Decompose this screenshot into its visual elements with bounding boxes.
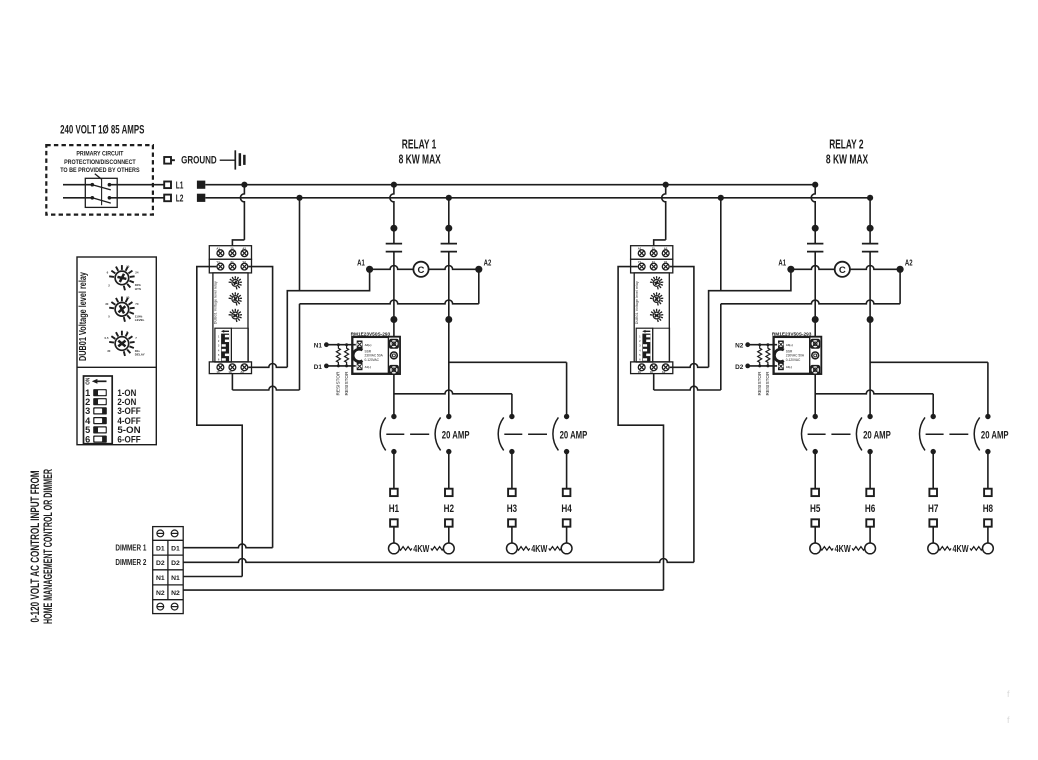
load circle H5 [810, 543, 821, 554]
faint page artifact [1007, 689, 1010, 725]
terminal H6 square (output) [866, 489, 874, 496]
DUB01-1 mid terminals Y1 Z1 Y2 [216, 260, 247, 270]
legend DIP switch row 4-OFF [85, 416, 107, 426]
svg-text:H4: H4 [561, 503, 572, 515]
legend box DUB01 [77, 257, 156, 445]
legend DIP text 2-ON [117, 397, 136, 407]
svg-text:Y1: Y1 [638, 260, 642, 264]
terminal H7 square (load) [929, 519, 937, 526]
contactor K2 contact R (from L2) [862, 198, 878, 323]
label DIMMER 1 [115, 543, 146, 552]
terminal H3 square (load) [508, 519, 516, 526]
svg-text:L2: L2 [176, 193, 184, 204]
terminal H8 square (load) [984, 519, 992, 526]
wire N1 to relay1 control [183, 576, 242, 578]
label H7 [928, 503, 938, 515]
junction L1/contact2L [812, 182, 818, 188]
svg-text:N1: N1 [314, 343, 322, 350]
svg-text:10: 10 [126, 264, 130, 268]
svg-text:D2: D2 [171, 560, 180, 567]
svg-text:D2: D2 [735, 364, 743, 371]
wire D1 to SSR [326, 365, 355, 367]
svg-text:D1: D1 [171, 545, 180, 552]
terminal H2 square (load) [445, 519, 453, 526]
wire N2 to SSR [748, 344, 777, 346]
terminal H1 square (load) [390, 519, 398, 526]
svg-text:Y1: Y1 [216, 260, 220, 264]
svg-text:A1: A1 [778, 257, 786, 267]
dimmer terminal block TB1 [153, 527, 184, 614]
junction L2/relay2 coil drop [718, 195, 724, 201]
junction L1/DUB01-1 [241, 182, 247, 188]
svg-text:H2: H2 [444, 503, 454, 515]
terminal L2 (open square and label) [164, 193, 184, 204]
wire H6 load lead [869, 527, 871, 543]
svg-text:DIMMER 1: DIMMER 1 [115, 543, 146, 552]
svg-text:A3(+): A3(+) [365, 343, 372, 347]
svg-text:20 AMP: 20 AMP [442, 430, 470, 442]
terminal cells D2 [156, 560, 180, 567]
svg-text:C: C [418, 265, 425, 276]
svg-text:D1: D1 [314, 364, 322, 371]
wire Y2 (DUB01-2) to D2 terminal [670, 267, 694, 563]
svg-text:DIMMER 2: DIMMER 2 [115, 558, 146, 567]
SSR U2 input terminals [778, 341, 793, 371]
wire D1 to relay1 control [183, 544, 272, 548]
svg-text:HOME MANAGEMENT CONTROL OR DIM: HOME MANAGEMENT CONTROL OR DIMMER [43, 469, 55, 624]
resistor R2b label [765, 371, 770, 396]
wire breaker to terminal H1 [393, 452, 395, 489]
svg-text:RELAY 2: RELAY 2 [829, 136, 863, 151]
svg-text:N2: N2 [171, 590, 180, 597]
svg-text:Z1: Z1 [652, 260, 656, 264]
contactor K1 contact R (from L2) [441, 198, 457, 323]
resistor R1b label [344, 371, 349, 396]
heater load 4KW (H5/H6) [821, 544, 865, 555]
svg-text:A1: A1 [357, 257, 365, 267]
svg-text:30: 30 [107, 349, 111, 353]
bus L2 wire [205, 197, 870, 199]
wire contact 2L to SSR and H5 [815, 320, 933, 417]
load circle H2 [443, 543, 454, 554]
svg-text:Z1: Z1 [230, 260, 234, 264]
svg-text:8 KW MAX: 8 KW MAX [826, 151, 869, 166]
terminal cells N2 [156, 590, 180, 597]
svg-text:15: 15 [230, 247, 234, 251]
wire L2 drop to contactor K2 coil circuit [720, 198, 722, 291]
label 20 AMP (CB2a) [863, 430, 891, 442]
load circle H8 [983, 543, 994, 554]
title 240 VOLT 1 PHASE 85 AMPS [60, 124, 144, 137]
node D1 [314, 364, 329, 371]
wire Y1 (DUB01-2) to N2 terminal [618, 267, 663, 590]
svg-text:A2: A2 [662, 370, 666, 374]
node A2 (K2 coil -) [897, 257, 913, 273]
DUB01-1 DIP switch block [215, 328, 248, 362]
wire contact 2R to H6 and H8 [870, 320, 988, 417]
node A1 (K1 coil +) [357, 257, 373, 273]
legend DIP switch row 3-OFF [85, 406, 107, 416]
label H5 [810, 503, 820, 515]
wire H1 load lead [393, 527, 395, 543]
circuit breaker CB2a (2-pole) [801, 414, 872, 455]
junction L1/contact1L [391, 182, 397, 188]
svg-text:20 AMP: 20 AMP [560, 430, 588, 442]
svg-text:A2: A2 [242, 247, 246, 251]
svg-text:8 KW MAX: 8 KW MAX [399, 151, 441, 166]
wire L2 drop to contactor K1 coil circuit [299, 198, 301, 291]
DUB01-1 knob 1 [229, 276, 242, 289]
circuit breaker CB1b (2-pole) [498, 414, 569, 455]
resistor R2a label [757, 371, 762, 396]
wire DUB01-2 A2 terminal to contactor A1 [670, 269, 791, 367]
svg-text:70: 70 [135, 302, 139, 306]
svg-text:6-OFF: 6-OFF [117, 434, 141, 444]
heater load 4KW (H3/H4) [517, 544, 561, 555]
svg-text:N1: N1 [156, 575, 165, 582]
svg-text:230VAC 50A: 230VAC 50A [365, 354, 384, 358]
terminal H7 square (output) [929, 489, 937, 496]
junction L2/relay1 coil drop [296, 195, 302, 201]
DUB01-2 knob 2 [650, 292, 663, 305]
terminal H6 square (load) [866, 519, 874, 526]
legend DIP text 6-OFF [117, 434, 141, 444]
svg-text:A2: A2 [664, 247, 668, 251]
wire L1 drop to DUB01-1 terminal 15 [232, 185, 244, 246]
svg-text:N1: N1 [171, 575, 180, 582]
resistor R2a [758, 343, 762, 367]
svg-text:TO BE PROVIDED BY OTHERS: TO BE PROVIDED BY OTHERS [60, 167, 139, 174]
svg-text:A2: A2 [240, 370, 244, 374]
heater load 4KW (H1/H2) [399, 544, 443, 555]
terminal block bottom mounting screws [157, 603, 178, 610]
wire Y1 (DUB01-1) to N1 terminal [197, 267, 242, 577]
svg-text:Y2: Y2 [242, 260, 246, 264]
terminal cells D1 [156, 545, 180, 552]
svg-text:LEVEL: LEVEL [135, 318, 145, 322]
svg-text:H1: H1 [389, 503, 399, 515]
wire H5 load lead [814, 527, 816, 543]
wire breaker to terminal H4 [566, 452, 568, 489]
resistor R1a label [336, 371, 341, 396]
svg-text:230VAC 50A: 230VAC 50A [786, 354, 805, 358]
ground terminal square [164, 157, 175, 164]
legend knob LEVEL [105, 296, 144, 323]
svg-text:L1: L1 [176, 180, 184, 191]
label H4 [561, 503, 572, 515]
svg-text:RESISTOR: RESISTOR [336, 371, 341, 396]
svg-text:DUB01 Voltage level relay: DUB01 Voltage level relay [635, 281, 639, 324]
resistor R1b [345, 343, 349, 367]
wire N1 to SSR [326, 344, 355, 346]
wire L1 drop to DUB01-2 terminal 15 [654, 185, 666, 246]
label H8 [983, 503, 993, 515]
load circle H6 [865, 543, 876, 554]
primary circuit protection box (dashed) [46, 145, 153, 215]
load circle H1 [389, 543, 400, 554]
terminal H5 square (output) [811, 489, 819, 496]
header RELAY 2 [826, 136, 869, 166]
svg-text:16: 16 [638, 370, 642, 374]
wire breaker to terminal H8 [987, 452, 989, 489]
svg-text:A2: A2 [905, 257, 913, 267]
DUB01-2 knob 1 [650, 276, 663, 289]
wire breaker to terminal H3 [511, 452, 513, 489]
junction L2/contact2R [867, 195, 873, 201]
legend DIP switch row 5-ON [85, 425, 107, 435]
wire H8 load lead [987, 527, 989, 543]
node N2 [735, 342, 750, 349]
svg-text:A2: A2 [484, 257, 492, 267]
resistor R1a [336, 343, 340, 367]
svg-text:3-OFF: 3-OFF [117, 406, 141, 416]
SSR U1 ratings text [365, 349, 384, 362]
svg-text:H3: H3 [507, 503, 517, 515]
svg-text:4KW: 4KW [413, 544, 429, 555]
SSR U2 ratings text [786, 349, 805, 362]
legend DIP text 3-OFF [117, 406, 141, 416]
DUB01-1 top terminals A1 15 A2 [216, 247, 247, 257]
legend DIP text 4-OFF [117, 416, 141, 426]
voltage level relay DUB01-2 body [631, 246, 673, 374]
wire DUB01-1 terminal 18 to contactor A2 [232, 269, 478, 390]
legend DIP text 5-ON [117, 425, 140, 435]
SSR U2 label RM1E23V50S-293 [772, 331, 812, 337]
svg-text:18: 18 [228, 370, 232, 374]
svg-text:Y2: Y2 [664, 260, 668, 264]
terminal H8 square (output) [984, 489, 992, 496]
legend DIP switch row 2-ON [85, 397, 107, 407]
terminal H1 square (output) [390, 489, 398, 496]
svg-text:H5: H5 [810, 503, 820, 515]
svg-text:DELAY: DELAY [135, 352, 145, 356]
terminal block top mounting screws [157, 530, 178, 537]
label 20 AMP (CB1a) [442, 430, 470, 442]
node N1 [314, 342, 329, 349]
svg-text:A1: A1 [216, 247, 220, 251]
legend DIP label NO [84, 378, 90, 385]
rotated note 0-120 VOLT AC CONTROL INPUT [30, 469, 55, 624]
svg-text:6: 6 [85, 434, 90, 444]
ground label [181, 155, 217, 167]
svg-text:15: 15 [652, 247, 656, 251]
DUB01-1 rotated label [214, 281, 218, 324]
svg-text:RELAY 1: RELAY 1 [402, 136, 437, 151]
svg-text:H7: H7 [928, 503, 938, 515]
ground symbol [220, 150, 246, 169]
load circle H3 [507, 543, 518, 554]
svg-text:24: 24 [135, 270, 139, 274]
bus L1 feed square [197, 181, 205, 189]
svg-text:A1(-): A1(-) [365, 365, 371, 369]
svg-text:NO: NO [84, 378, 90, 385]
disconnect switch S1 (2-pole) [63, 174, 164, 208]
svg-text:240 VOLT 1Ø 85 AMPS: 240 VOLT 1Ø 85 AMPS [60, 124, 144, 137]
svg-text:RESISTOR: RESISTOR [757, 371, 762, 396]
DUB01-2 knob 3 [650, 309, 663, 322]
svg-text:4KW: 4KW [531, 544, 547, 555]
wire N2 to relay2 control [183, 589, 663, 591]
resistor R2b [766, 343, 770, 367]
SSR U2 body [774, 337, 822, 374]
SSR U1 label RM1E23V50S-293 [351, 331, 391, 337]
junction L2/contact1R [446, 195, 452, 201]
terminal H3 square (output) [508, 489, 516, 496]
legend knob HYS [107, 264, 142, 291]
svg-text:4KW: 4KW [953, 544, 969, 555]
junction L1/DUB01-2 [663, 182, 669, 188]
wire contact 1L to SSR and H1 [394, 320, 512, 417]
svg-text:0-120 VOLT AC CONTROL INPUT FR: 0-120 VOLT AC CONTROL INPUT FROM [30, 471, 42, 623]
SSR U1 horseshoe mark [353, 349, 362, 361]
label H1 [389, 503, 399, 515]
terminal H4 square (output) [563, 489, 571, 496]
svg-text:0-120VAC: 0-120VAC [786, 358, 801, 362]
wire breaker to terminal H2 [448, 452, 450, 489]
contactor K2 contact L (from L1) [807, 185, 823, 323]
node A1 (K2 coil +) [778, 257, 794, 273]
legend DIP switch box [84, 376, 113, 444]
wire D2 to relay2 control [183, 559, 694, 563]
legend DIP switch row 1-ON [85, 388, 107, 398]
legend DIP ON-direction arrow [92, 379, 107, 384]
DUB01-1 knob 3 [229, 309, 242, 322]
svg-text:A1(-): A1(-) [786, 365, 792, 369]
circuit breaker CB1a (2-pole) [380, 414, 451, 455]
contactor K1 contact L (from L1) [386, 185, 402, 323]
primary circuit protection text [60, 151, 139, 175]
label 20 AMP (CB1b) [560, 430, 588, 442]
label 20 AMP (CB2b) [981, 430, 1009, 442]
contactor K2 coil C [791, 262, 900, 277]
svg-text:HYS: HYS [135, 287, 141, 291]
DUB01-2 rotated label [635, 281, 639, 324]
node A2 (K1 coil -) [475, 257, 491, 273]
SSR U2 power terminals [810, 337, 821, 375]
DUB01-2 mid terminals Y1 Z1 Y2 [638, 260, 669, 270]
svg-text:20 AMP: 20 AMP [863, 430, 891, 442]
svg-text:N2: N2 [156, 590, 165, 597]
SSR U1 input terminals [357, 341, 372, 371]
label H2 [444, 503, 454, 515]
svg-text:18: 18 [650, 370, 654, 374]
svg-text:16: 16 [216, 370, 220, 374]
load circle H4 [561, 543, 572, 554]
wire D2 to SSR [748, 365, 777, 367]
svg-text:90: 90 [126, 296, 130, 300]
svg-text:SSR: SSR [365, 349, 372, 353]
svg-text:RESISTOR: RESISTOR [344, 371, 349, 396]
svg-text:PROTECTION/DISCONNECT: PROTECTION/DISCONNECT [64, 159, 136, 166]
svg-text:C: C [839, 265, 846, 276]
svg-text:SSR: SSR [786, 349, 793, 353]
svg-text:A1: A1 [638, 247, 642, 251]
svg-text:H8: H8 [983, 503, 993, 515]
svg-text:DUB01 Voltage level relay: DUB01 Voltage level relay [214, 281, 218, 324]
DUB01-2 DIP switch block [636, 328, 669, 362]
circuit breaker CB2b (2-pole) [920, 414, 991, 455]
SSR U1 body [352, 337, 400, 374]
terminal cells N1 [156, 575, 180, 582]
heater load 4KW (H7/H8) [939, 544, 983, 555]
DUB01-1 bottom terminals 16 18 A2 [216, 364, 247, 374]
terminal L1 (open square and label) [164, 180, 184, 191]
legend DIP switch row 6-OFF [85, 434, 107, 444]
contactor K1 coil C [370, 262, 479, 277]
wire DUB01-1 A2 terminal to contactor A1 [248, 269, 369, 367]
svg-text:A3(+): A3(+) [786, 343, 793, 347]
terminal H2 square (output) [445, 489, 453, 496]
legend DIP text 1-ON [117, 388, 136, 398]
svg-text:DUB01 Voltage level relay: DUB01 Voltage level relay [78, 272, 89, 361]
bus L1 wire [205, 184, 815, 186]
DUB01-2 bottom terminals 16 18 A2 [638, 364, 669, 374]
wire H2 load lead [448, 527, 450, 543]
wire breaker to terminal H6 [869, 452, 871, 489]
svg-text:RESISTOR: RESISTOR [765, 371, 770, 396]
legend rotated label DUB01 Voltage level relay [78, 272, 89, 361]
svg-text:D1: D1 [156, 545, 165, 552]
bus L2 feed square [197, 194, 205, 202]
terminal H5 square (load) [811, 519, 819, 526]
svg-text:20 AMP: 20 AMP [981, 430, 1009, 442]
wire contact 1R to H2 and H4 [449, 320, 567, 417]
wire breaker to terminal H7 [932, 452, 934, 489]
terminal H4 square (load) [563, 519, 571, 526]
wire H7 load lead [932, 527, 934, 543]
svg-text:0-120VAC: 0-120VAC [365, 358, 380, 362]
label DIMMER 2 [115, 558, 146, 567]
wire H3 load lead [511, 527, 513, 543]
svg-text:D2: D2 [156, 560, 165, 567]
load circle H7 [928, 543, 939, 554]
svg-text:GROUND: GROUND [181, 155, 217, 167]
SSR U2 horseshoe mark [774, 349, 783, 361]
wire DUB01-2 terminal 18 to contactor A2 [654, 269, 900, 390]
wire breaker to terminal H5 [814, 452, 816, 489]
svg-text:N2: N2 [735, 343, 743, 350]
DUB01-2 top terminals A1 15 A2 [638, 247, 669, 257]
svg-text:3: 3 [85, 406, 90, 416]
voltage level relay DUB01-1 body [209, 246, 251, 374]
SSR U1 power terminals [388, 337, 399, 375]
wire Y2 (DUB01-1) to D1 terminal [248, 267, 272, 548]
svg-text:30: 30 [105, 302, 109, 306]
wire H4 load lead [566, 527, 568, 543]
node D2 [735, 364, 750, 371]
label H3 [507, 503, 517, 515]
DUB01-1 knob 2 [229, 292, 242, 305]
svg-text:H6: H6 [865, 503, 875, 515]
header RELAY 1 [399, 136, 441, 166]
label H6 [865, 503, 875, 515]
legend knob DELAY [105, 330, 145, 357]
svg-text:0.5: 0.5 [105, 336, 109, 340]
svg-text:4KW: 4KW [835, 544, 851, 555]
svg-text:PRIMARY CIRCUIT: PRIMARY CIRCUIT [76, 151, 123, 158]
